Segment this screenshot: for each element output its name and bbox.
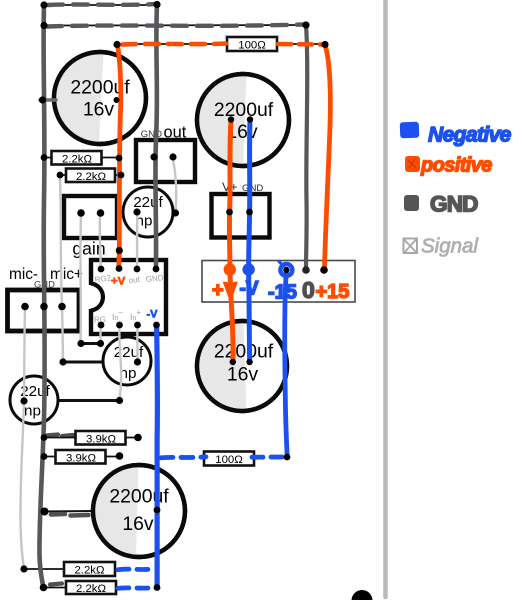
op-amp footprint U1: [85, 260, 166, 334]
panel divider: [383, 0, 388, 597]
wire GND bus second (thin line): [44, 24, 306, 27]
node mic box pins: [21, 303, 66, 311]
node C2 terminals: [228, 116, 253, 122]
svg-text:np: np: [24, 403, 41, 420]
legend positive swatch: [405, 156, 420, 172]
node C4 stub: [41, 508, 49, 516]
wire -V C2 to power to C3: [249, 121, 250, 360]
wire +15 dashes top-left segment: [122, 44, 226, 45]
svg-text:-V: -V: [240, 279, 259, 300]
node out box pins: [150, 153, 176, 160]
wire 22uf right stub: [168, 212, 176, 215]
wire GND dash on 3.9k lead: [46, 435, 73, 437]
wire RG-pin connector line y343: [81, 342, 100, 345]
wire GND stub to C1: [40, 98, 56, 101]
svg-text:-V: -V: [147, 309, 159, 321]
node 22uf B link and terminal: [59, 358, 141, 365]
connector box GAIN: [64, 196, 117, 259]
node orange bus ends: [113, 41, 328, 48]
wire GND bus second dashes: [47, 25, 303, 27]
wire -V dash to 2.2k bottom2: [118, 585, 153, 591]
terminal +V dot: [224, 263, 236, 275]
svg-text:2.2kΩ: 2.2kΩ: [76, 171, 107, 183]
svg-text:2.2kΩ: 2.2kΩ: [62, 154, 93, 166]
node R4 leads: [41, 434, 142, 442]
node R2 leads: [41, 154, 123, 161]
wire GND dash on bottom 2.2k lead: [50, 584, 62, 585]
capacitor C4 2200uf 16v bottom-left: [93, 465, 185, 557]
svg-text:16v: 16v: [83, 99, 115, 121]
legend signal text: [421, 235, 479, 258]
node V+GND box pins: [226, 209, 253, 216]
capacitor C3 2200uf 16v mid: [197, 321, 287, 411]
legend negative text: [428, 124, 512, 147]
wire signal mic- to bottom 2.2k: [20, 309, 25, 568]
legend signal swatch: [404, 239, 418, 254]
node C1 plus terminal: [114, 97, 120, 103]
svg-text:+15: +15: [316, 281, 350, 303]
node gain box pins: [77, 209, 104, 217]
wire C3-right connector line y400: [56, 399, 119, 402]
node opamp top pins: [98, 265, 160, 272]
wire +V C2 to power to C3: [229, 121, 233, 360]
svg-text:3.9kΩ: 3.9kΩ: [66, 453, 97, 465]
svg-text:100Ω: 100Ω: [215, 454, 243, 466]
wire -15 vertical: [285, 271, 288, 457]
capacitor 22uf np B (below opamp): [103, 337, 151, 385]
node R3 leads: [57, 172, 125, 179]
capacitor C2 2200uf 16v top-mid: [197, 74, 289, 166]
svg-text:0: 0: [302, 277, 315, 303]
svg-text:2200uf: 2200uf: [109, 486, 169, 508]
wire GND vertical to opamp GND pin: [155, 4, 157, 268]
wire +V left vertical (to opamp): [118, 45, 121, 266]
wire -15 dashes left of 100ohm: [161, 457, 206, 458]
wire C2-left connector line y362: [63, 361, 104, 364]
node (large black dot bottom): [352, 590, 373, 600]
svg-text:positive: positive: [420, 155, 492, 177]
resistor 2.2k ohm bottom1: [24, 562, 115, 577]
capacitor C1 2200uf 16v top-left: [54, 52, 146, 144]
svg-text:GND: GND: [145, 273, 164, 284]
node opamp bottom pins: [98, 322, 160, 329]
label +V handwritten: [212, 280, 238, 302]
connector box OUT: [136, 124, 195, 183]
node C3 terminals: [230, 359, 253, 365]
svg-text:3.9kΩ: 3.9kΩ: [86, 434, 117, 446]
wire signal 22uf to out pin: [136, 214, 139, 268]
connector box MIC: [8, 266, 83, 331]
wire -V dash to 2.2k bottom1: [118, 567, 153, 573]
wire signal gain2 to RG2 pin: [99, 214, 102, 268]
legend gnd swatch: [404, 195, 419, 211]
wire GND stub to C4 (thin line): [44, 510, 94, 513]
wire +15 dashes top-right segment: [278, 42, 322, 47]
svg-text:2200uf: 2200uf: [214, 99, 274, 121]
connector box POWER: [202, 261, 355, 303]
svg-text:16v: 16v: [227, 364, 259, 386]
connector box V+ GND: [212, 180, 270, 238]
wire signal 2.2k to mic+ to C2conn: [60, 177, 63, 361]
svg-text:22uf: 22uf: [133, 194, 163, 211]
resistor 100 ohm bottom: [204, 452, 254, 467]
terminal -V dot: [242, 263, 254, 275]
node orange bend: [116, 247, 123, 254]
wire signal In- pin down to node: [119, 326, 121, 400]
svg-text:+V: +V: [111, 276, 126, 288]
node RG link: [77, 340, 104, 347]
svg-text:2200uf: 2200uf: [214, 341, 274, 363]
wire GND vertical left rail: [39, 5, 44, 588]
resistor 2.2k ohm upper2: [60, 169, 121, 184]
terminal +15 dot: [320, 266, 328, 274]
node 2.2k bottom leads: [20, 565, 160, 591]
wire GND bus top dashes: [48, 4, 157, 5]
node GND bus ends: [40, 1, 309, 29]
svg-text:-15: -15: [268, 282, 297, 304]
svg-text:mic+: mic+: [50, 266, 83, 283]
wire signal gain1 down to RG link: [79, 214, 82, 342]
node C4 terminal: [154, 507, 161, 514]
legend negative swatch: [400, 122, 420, 139]
capacitor 22uf np C (left): [10, 376, 58, 424]
svg-text:GND: GND: [242, 183, 263, 194]
svg-text:16v: 16v: [122, 513, 154, 535]
capacitor 22uf np A (right of gain): [123, 187, 173, 237]
svg-text:2.2kΩ: 2.2kΩ: [76, 583, 107, 595]
svg-text:Signal: Signal: [421, 235, 479, 258]
terminal -15 ringed dot: [279, 262, 292, 277]
svg-text:out: out: [164, 124, 187, 142]
legend positive text: [420, 155, 492, 177]
resistor 2.2k ohm bottom2: [43, 581, 116, 595]
label -V handwritten: [240, 279, 259, 300]
wire signal outbox to 22uf right node: [173, 159, 176, 212]
node 22uf A terminal and right node: [133, 208, 179, 216]
wire GND vertical to 0 terminal: [306, 25, 307, 268]
wire under 100 ohm top (thin line): [117, 43, 325, 45]
wire signal RG pin down: [99, 326, 101, 343]
label 0 handwritten: [302, 277, 315, 303]
resistor 2.2k ohm upper1: [44, 151, 119, 166]
wire GND bus top (thin line): [44, 4, 157, 6]
svg-text:GND: GND: [430, 192, 478, 217]
resistor 3.9k ohm lower: [44, 450, 119, 465]
node 22uf C terminal and link: [20, 397, 123, 405]
svg-text:2.2kΩ: 2.2kΩ: [74, 565, 105, 577]
label +15 handwritten: [316, 281, 350, 303]
resistor 3.9k ohm upper: [44, 431, 138, 446]
terminal 0 dot: [302, 266, 310, 274]
svg-text:+V: +V: [212, 280, 238, 302]
svg-text:Negative: Negative: [428, 124, 512, 147]
wire signal In+ pin to 22uf B: [136, 326, 139, 362]
node C1 stub: [39, 96, 46, 103]
node -15 dash end: [284, 454, 291, 461]
wire GND stub to C4 dashes: [51, 514, 89, 516]
svg-text:GND: GND: [141, 129, 162, 140]
wire -15 dashes right of 100ohm: [252, 455, 284, 460]
svg-text:100Ω: 100Ω: [238, 40, 266, 52]
resistor 100 ohm top: [227, 37, 277, 52]
label -15 handwritten: [268, 282, 297, 304]
wire +15 right vertical: [325, 45, 331, 267]
legend gnd text: [430, 192, 478, 217]
wire -V rail from opamp down: [154, 326, 160, 588]
svg-text:22uf: 22uf: [114, 344, 144, 361]
node R5 leads: [41, 452, 124, 460]
